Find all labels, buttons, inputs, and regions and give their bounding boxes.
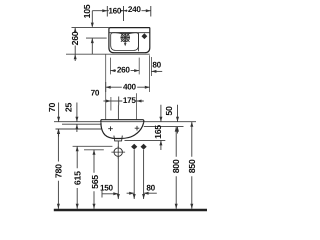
node tick 160/240 mid [123,6,125,21]
wire reference R2 25mm [62,123,101,125]
svg-text:260: 260 [117,66,131,75]
wire extension 260-left tick [109,58,111,75]
wire extension 175 right [136,93,138,119]
plan faucet symbol wings [115,33,136,35]
svg-text:105: 105 [82,4,92,18]
wall fixing diamond left [131,144,137,150]
svg-text:850: 850 [187,159,197,173]
front view fixing hole right [135,126,140,131]
wire extension 400-left/front [105,55,107,120]
dimension 50 right [177,105,179,134]
node tick 240 right [150,6,152,17]
svg-text:80: 80 [146,183,155,192]
wire diamond right line [143,150,145,199]
wire arrow into right tick [146,9,151,12]
dimension 260 left vertical [74,28,76,61]
dimension 70 front left [58,103,60,137]
wire drain pipe to trap [117,141,119,147]
dimension 175 [119,100,144,102]
dimension 565 [93,150,95,209]
dimension 80 plan bottom [151,70,162,72]
front view fixing hole left [108,126,113,131]
wire top dimension chain line [92,10,151,12]
dimension 25 front left [76,103,78,133]
svg-text:160: 160 [108,7,122,16]
wire arrows at mid tick [120,10,127,12]
wire extension basin right edge [148,55,150,92]
svg-text:50: 50 [164,106,174,116]
dimension 400 [105,82,107,92]
plan view inner basin [111,33,139,51]
node tick 160 left [106,6,108,17]
floor line [54,209,207,211]
svg-text:165: 165 [153,125,163,139]
dimension 150 bottom [101,191,103,198]
plan view tap deck divider [138,33,140,52]
svg-text:240: 240 [128,5,142,14]
dimension 615 [76,146,78,209]
wire basin-top extension line left [72,27,109,29]
wire extension 80-right tick [150,57,152,76]
wire drain line to floor [117,157,119,199]
svg-text:150: 150 [100,183,114,192]
svg-text:25: 25 [63,103,73,113]
svg-text:260: 260 [70,31,80,45]
svg-text:780: 780 [54,164,64,178]
wire basin-bottom extension line left [66,53,150,55]
dimension 105 lower arrow [91,38,93,54]
washbasin front view outline [101,120,144,123]
drain symbol circle cross [114,148,122,156]
wire arrow into left tick [102,9,107,12]
wire extension 70 left [110,97,112,111]
wire reference R3 50mm [144,126,184,128]
dimension 70 chain [103,100,118,102]
wire reference R6 615 [73,145,113,147]
svg-text:565: 565 [90,175,100,189]
washbasin plan view outer outline [109,28,150,53]
plan faucet symbol stem [124,42,126,44]
wire reference R5 165 bottom [125,139,166,141]
plan view rim inner line [109,32,150,34]
plan faucet symbol rosette [121,33,130,42]
dimension 165 right [160,105,162,150]
svg-text:400: 400 [123,83,137,92]
wire reference R4 70mm [56,128,102,130]
plan faucet hole diamond [142,33,148,39]
dimension 80 bottom [127,192,157,194]
dimension 780 [57,129,59,209]
node tick 175 left [117,97,119,120]
svg-text:615: 615 [73,171,83,185]
svg-text:800: 800 [171,159,181,173]
svg-text:70: 70 [47,103,57,113]
svg-text:175: 175 [123,96,137,105]
dimension 260 plan bottom [110,70,139,72]
svg-text:70: 70 [91,88,100,97]
dimension 800 [175,127,177,209]
wire extension divider tick [138,58,140,75]
front view drain fitting [114,136,122,141]
dimension 105 vertical [91,11,93,27]
svg-text:80: 80 [152,61,161,70]
wire reference R7 565 [84,149,104,151]
wire diamond left line [133,150,135,199]
dimension 850 [191,122,193,209]
wire tap-centre reference line left [86,37,107,39]
wire rim reference line R1 [54,121,196,123]
wall fixing diamond right [141,144,147,150]
